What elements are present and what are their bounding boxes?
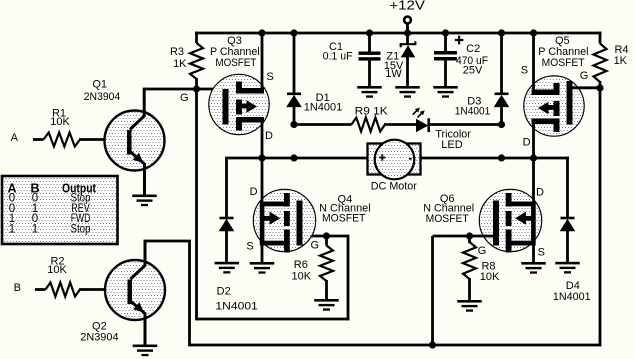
Q1 base bar bbox=[127, 130, 132, 155]
wire LED to D3 node bbox=[430, 123, 502, 126]
mosfet Q4 body bbox=[253, 189, 315, 251]
wire R6 to ground bbox=[325, 280, 328, 299]
wire rail to R4 bbox=[599, 32, 602, 44]
Q4 gate bar bbox=[297, 201, 303, 246]
zener Z1 bar bbox=[401, 41, 416, 47]
ground Q2 emitter bbox=[133, 345, 158, 348]
svg-text:D: D bbox=[536, 187, 544, 199]
LED tricolor bbox=[416, 119, 428, 133]
svg-text:LED: LED bbox=[441, 139, 462, 151]
wire R9 to LED bbox=[384, 123, 417, 126]
zener Z1 triangle bbox=[401, 45, 416, 57]
svg-text:S: S bbox=[246, 241, 253, 253]
Q4 channel mid bbox=[284, 211, 290, 226]
ground C1 bbox=[357, 86, 382, 89]
Q3 gate bar bbox=[223, 89, 229, 124]
transistor Q2 bbox=[105, 260, 165, 320]
resistor R1 bbox=[44, 133, 81, 147]
svg-text:10K: 10K bbox=[480, 271, 500, 283]
svg-text:G: G bbox=[580, 70, 589, 82]
Q6 gate run bbox=[433, 235, 494, 238]
diode D4 bbox=[566, 157, 569, 218]
svg-text:Stop: Stop bbox=[71, 223, 91, 235]
Q3 drain bar bbox=[236, 117, 264, 123]
svg-text:S: S bbox=[538, 246, 545, 258]
bottom bus wire bbox=[190, 344, 602, 347]
svg-text:1N4001: 1N4001 bbox=[304, 102, 343, 114]
Q2 emitter bbox=[131, 301, 146, 345]
svg-text:+12V: +12V bbox=[389, 0, 425, 13]
wire R2 to Q2 base bbox=[79, 288, 128, 291]
svg-text:B: B bbox=[14, 282, 21, 294]
svg-text:D: D bbox=[523, 136, 531, 148]
junction dots bbox=[258, 29, 265, 36]
Q2 base bar bbox=[128, 280, 133, 305]
mosfet Q6 internals bbox=[532, 158, 535, 203]
wire D1 node to R9 bbox=[294, 123, 352, 126]
svg-text:1K: 1K bbox=[173, 58, 187, 70]
svg-text:R9 1K: R9 1K bbox=[355, 106, 389, 118]
svg-text:A: A bbox=[11, 132, 19, 144]
capacitor C1 bbox=[359, 52, 381, 55]
ground Q6 source bbox=[521, 262, 546, 265]
svg-text:DC Motor: DC Motor bbox=[371, 181, 417, 193]
ground D2 bbox=[215, 262, 240, 265]
Q5 gate wire bbox=[573, 86, 602, 89]
+12V terminal bbox=[404, 17, 411, 24]
svg-text:10K: 10K bbox=[292, 270, 312, 282]
wire C2 to ground bbox=[444, 61, 447, 87]
wire R3 to node GA bbox=[195, 78, 198, 89]
Q4 bottom bar bbox=[260, 241, 289, 246]
wire node GA down bbox=[195, 89, 198, 320]
svg-text:S: S bbox=[521, 65, 528, 77]
svg-text:G: G bbox=[311, 240, 320, 252]
ground C2 bbox=[433, 86, 458, 89]
resistor R4 bbox=[594, 44, 607, 83]
svg-text:MOSFET: MOSFET bbox=[542, 57, 585, 69]
svg-text:MOSFET: MOSFET bbox=[426, 213, 469, 225]
wire B to R2 bbox=[35, 288, 46, 291]
C2 plus sign bbox=[455, 39, 464, 41]
svg-text:0.1 uF: 0.1 uF bbox=[323, 51, 353, 63]
wire rail to C2 bbox=[444, 33, 447, 52]
Q1 emitter arrow bbox=[133, 153, 144, 163]
svg-text:10K: 10K bbox=[47, 264, 67, 276]
svg-text:1N4001: 1N4001 bbox=[553, 291, 591, 303]
mosfet Q3 body bbox=[209, 74, 269, 134]
resistor R2 bbox=[46, 283, 81, 297]
ground R8 bbox=[457, 300, 482, 303]
svg-text:10K: 10K bbox=[50, 116, 70, 128]
wire Z1 to ground bbox=[406, 57, 409, 87]
svg-text:25V: 25V bbox=[463, 65, 483, 77]
svg-text:1N4001: 1N4001 bbox=[455, 105, 491, 117]
svg-text:C2: C2 bbox=[466, 43, 480, 55]
svg-text:G: G bbox=[478, 245, 487, 257]
transistor Q1 bbox=[105, 111, 165, 171]
svg-text:Q1: Q1 bbox=[92, 79, 107, 91]
wire A to R1 bbox=[33, 138, 44, 141]
wire R8 top bbox=[468, 236, 471, 243]
ground R6 bbox=[314, 299, 339, 302]
wire GA bottom across bbox=[197, 318, 350, 321]
motor circle bbox=[375, 140, 415, 180]
Q3 body arrow bbox=[242, 104, 247, 109]
resistor R6 bbox=[320, 246, 333, 282]
svg-text:MOSFET: MOSFET bbox=[215, 57, 256, 69]
svg-text:1: 1 bbox=[9, 223, 15, 235]
junction wire R6 bbox=[325, 236, 328, 246]
wire Q1 collector to node GA bbox=[144, 88, 223, 91]
wire left motor branch bbox=[227, 157, 369, 160]
svg-text:G: G bbox=[180, 92, 189, 104]
svg-text:1N4001: 1N4001 bbox=[215, 300, 257, 312]
svg-text:D: D bbox=[250, 186, 258, 198]
diode D3 bbox=[500, 33, 503, 94]
Q2 emitter arrow bbox=[133, 302, 144, 312]
wire rail to Z1 bbox=[406, 33, 409, 45]
ground D4 bbox=[555, 262, 580, 265]
wire B branch down bbox=[188, 241, 191, 346]
wire terminal to rail bbox=[406, 23, 409, 33]
wire Q2 collector run bbox=[145, 240, 191, 243]
wire Q6 gate down bbox=[431, 236, 434, 346]
wire rail to C1 bbox=[368, 33, 371, 52]
wire R4 to gate node bbox=[599, 81, 602, 88]
wire right motor branch bbox=[420, 157, 569, 160]
wire rail to R3 bbox=[195, 32, 198, 43]
Q3 channel bottom bbox=[236, 118, 242, 131]
Q3 channel top bbox=[236, 82, 242, 94]
Q4 channel top bbox=[284, 193, 290, 207]
svg-text:1: 1 bbox=[32, 223, 38, 235]
svg-text:Q2: Q2 bbox=[92, 320, 107, 332]
motor plus bbox=[379, 157, 385, 159]
resistor R8 bbox=[463, 242, 476, 279]
svg-text:2N3904: 2N3904 bbox=[80, 332, 118, 344]
svg-text:R3: R3 bbox=[170, 46, 184, 58]
resistor R9 bbox=[352, 118, 386, 132]
mosfet Q5 internals bbox=[532, 33, 535, 95]
truth table box bbox=[2, 176, 118, 244]
svg-text:2N3904: 2N3904 bbox=[84, 91, 121, 103]
Q2 collector bbox=[131, 240, 146, 279]
Q4 top bar bbox=[260, 202, 289, 207]
top rail +12V bbox=[195, 32, 601, 35]
Q4 source wire bbox=[261, 244, 264, 263]
ground Q1 emitter bbox=[132, 195, 157, 198]
wire C1 to ground bbox=[368, 61, 371, 86]
diode D2 bbox=[227, 158, 229, 218]
wire Q5 gate node down bbox=[599, 88, 602, 346]
svg-text:1W: 1W bbox=[385, 68, 402, 80]
svg-text:S: S bbox=[266, 71, 273, 83]
motor frame bbox=[368, 144, 421, 175]
Q3 source line bbox=[261, 33, 264, 93]
mosfet Q5 body bbox=[524, 76, 584, 136]
LED arrows bbox=[413, 109, 419, 115]
diode D1 bbox=[293, 33, 296, 94]
motor minus bbox=[409, 158, 412, 160]
capacitor C2 bbox=[434, 51, 457, 55]
svg-text:D2: D2 bbox=[217, 286, 231, 298]
wire R1 to Q1 base bbox=[79, 138, 128, 141]
ground Q4 source bbox=[250, 262, 275, 265]
Q4 left bar bbox=[260, 202, 265, 246]
Q1 emitter bbox=[130, 152, 145, 195]
Q3 channel mid bbox=[236, 100, 242, 115]
Q1 collector bbox=[130, 88, 144, 130]
Q4 drain wire bbox=[261, 158, 264, 203]
svg-text:1K: 1K bbox=[614, 55, 628, 67]
svg-text:MOSFET: MOSFET bbox=[322, 213, 366, 225]
wire Q4 gate run bbox=[303, 235, 350, 238]
wire R8 to ground bbox=[468, 278, 471, 300]
ground Z1 bbox=[395, 86, 420, 89]
Q3 drain line bbox=[261, 118, 264, 158]
wire up to Q4 gate wire bbox=[347, 236, 350, 320]
resistor R3 bbox=[190, 43, 203, 79]
Q3 source bar bbox=[236, 88, 264, 94]
Q4 channel bottom bbox=[284, 230, 290, 253]
Q4 body arrow bbox=[264, 216, 270, 221]
mosfet Q6 body bbox=[479, 189, 541, 251]
svg-text:D: D bbox=[265, 130, 273, 142]
